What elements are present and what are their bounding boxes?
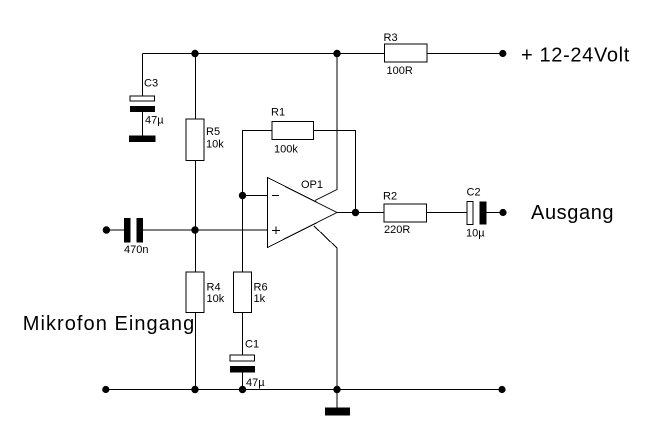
terminal mic input: [103, 226, 110, 233]
svg-text:47µ: 47µ: [246, 377, 265, 389]
wire 470n to op-amp +: [143, 229, 267, 231]
svg-text:1k: 1k: [254, 293, 266, 305]
capacitor C2: [466, 187, 487, 240]
wire R2 to C2: [427, 212, 468, 214]
svg-text:100R: 100R: [387, 65, 413, 77]
svg-text:47µ: 47µ: [145, 115, 164, 127]
resistor R3: [384, 32, 428, 77]
junction V+: [333, 50, 340, 57]
resistor R2: [383, 191, 427, 237]
svg-text:10k: 10k: [206, 139, 224, 151]
svg-text:OP1: OP1: [301, 179, 323, 191]
wire output: [337, 212, 384, 214]
ground symbol: [325, 390, 350, 416]
op-amp OP1: [268, 178, 338, 248]
terminal +12-24V: [499, 50, 506, 57]
resistor R1: [271, 107, 314, 156]
junction - input: [239, 192, 246, 199]
junction output: [352, 209, 359, 216]
wire C2 to output terminal: [487, 212, 501, 214]
wire V+ to op-amp: [315, 54, 337, 201]
ground C3: [129, 136, 156, 143]
svg-text:C1: C1: [245, 339, 259, 351]
wire input to C4: [110, 229, 125, 231]
junction R4 ground: [191, 386, 198, 393]
wire R1 right: [314, 131, 356, 213]
svg-text:R2: R2: [383, 191, 397, 203]
svg-text:470n: 470n: [124, 244, 148, 256]
terminal bottom-right: [498, 386, 505, 393]
wire V+ rail: [143, 53, 503, 55]
wire - input: [243, 195, 268, 197]
wire R6 stem: [242, 196, 244, 273]
junction + input node: [191, 226, 198, 233]
wire ground rail: [106, 389, 502, 391]
svg-text:220R: 220R: [384, 224, 410, 236]
wire R4 to ground rail: [195, 313, 197, 390]
capacitor C3: [130, 78, 164, 136]
svg-text:Mikrofon Eingang: Mikrofon Eingang: [23, 313, 195, 335]
svg-text:10µ: 10µ: [466, 228, 485, 240]
wire R5 stem: [195, 54, 197, 120]
resistor R4: [186, 272, 225, 313]
capacitor C1: [230, 339, 265, 390]
svg-text:R1: R1: [271, 107, 285, 119]
terminal Ausgang: [499, 209, 506, 216]
junction op-amp ground: [333, 386, 340, 393]
svg-text:C2: C2: [467, 187, 481, 199]
terminal bottom-left: [102, 386, 109, 393]
junction R5 top: [191, 50, 198, 57]
svg-text:R4: R4: [207, 282, 221, 294]
resistor R6: [234, 272, 268, 313]
wire R1 left: [243, 131, 273, 196]
resistor R5: [186, 119, 224, 161]
wire R6 to C1: [242, 313, 244, 356]
wire C1 to ground rail: [242, 373, 244, 390]
svg-text:100k: 100k: [274, 144, 298, 156]
wire R5 to R4: [195, 161, 197, 273]
wire C3 stem: [142, 54, 144, 97]
junction C1 ground: [239, 386, 246, 393]
capacitor 470n: [124, 218, 148, 256]
svg-text:R6: R6: [254, 282, 268, 294]
svg-text:10k: 10k: [207, 293, 225, 305]
svg-text:R3: R3: [384, 32, 398, 44]
wire op-amp V- to ground: [314, 226, 337, 390]
svg-text:Ausgang: Ausgang: [531, 202, 614, 224]
svg-text:+ 12-24Volt: + 12-24Volt: [521, 45, 630, 67]
svg-text:C3: C3: [144, 78, 158, 90]
svg-text:R5: R5: [206, 126, 220, 138]
